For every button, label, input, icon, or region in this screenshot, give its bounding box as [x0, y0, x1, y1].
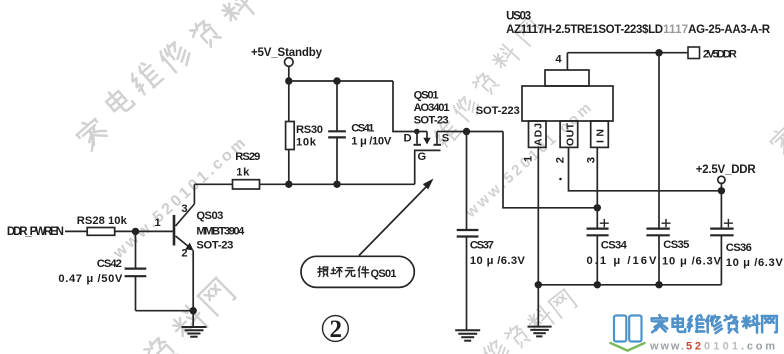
node junction CS34/rail [594, 281, 601, 288]
node junction B (CS41 top) [333, 77, 340, 84]
svg-text:OUT: OUT [565, 122, 577, 146]
svg-text:CS42: CS42 [97, 258, 122, 270]
capacitor CS34 [587, 208, 658, 285]
svg-text:CS41: CS41 [351, 123, 374, 135]
svg-text:ADJ: ADJ [533, 123, 545, 146]
node junction CS35/rail [655, 281, 662, 288]
svg-text:CS37: CS37 [470, 240, 494, 252]
transistor QS01 AO3401 [404, 90, 450, 185]
power symbol +5V_Standby [285, 58, 294, 67]
transistor QS03 MMBT3904 [155, 184, 246, 310]
wire CS42 bottom to emitter [136, 310, 194, 312]
svg-text:1117: 1117 [663, 24, 688, 36]
svg-text:QS01: QS01 [414, 90, 439, 102]
node junction CS42 top [132, 228, 139, 235]
svg-text:2: 2 [330, 316, 343, 343]
svg-text:www.: www. [649, 341, 686, 353]
svg-text:RS28 10k: RS28 10k [77, 215, 128, 227]
svg-text:RS29: RS29 [235, 151, 260, 163]
node DDR_PWREN label [7, 226, 64, 238]
wire +5V circle to junction [288, 66, 290, 81]
svg-text:AO3401: AO3401 [414, 102, 450, 114]
svg-text:1 μ /10V: 1 μ /10V [351, 135, 392, 147]
annotation arrow to QS01 [359, 179, 434, 256]
svg-text:QS01: QS01 [371, 268, 397, 280]
svg-text:US03: US03 [506, 11, 531, 23]
svg-text:4: 4 [555, 54, 562, 66]
capacitor CS41 [328, 81, 392, 184]
node junction 2V5DDR rail [655, 49, 662, 56]
logo text 家电维修资料网 [651, 315, 777, 333]
svg-text:0101: 0101 [704, 341, 740, 353]
svg-text:SOT-23: SOT-23 [414, 115, 449, 127]
wire QS01 source rail [437, 131, 503, 133]
svg-text:10 μ /6.3V: 10 μ /6.3V [662, 256, 722, 268]
svg-text:RS30: RS30 [296, 124, 323, 136]
wire +5V top rail [289, 80, 393, 82]
svg-text:+5V_Standby: +5V_Standby [251, 47, 323, 59]
svg-text:1k: 1k [236, 166, 250, 178]
node junction emitter/ground [190, 307, 197, 314]
svg-text:SOT-23: SOT-23 [196, 240, 233, 252]
logo book icon [611, 316, 645, 351]
svg-text:10 μ /6.3V: 10 μ /6.3V [726, 257, 784, 269]
wire +5V rail down to QS01 drain [393, 81, 415, 132]
wire +2.5V stub [720, 183, 722, 190]
svg-text:1: 1 [155, 217, 161, 229]
ground under CS37 [455, 330, 480, 340]
power symbol +2.5V_DDR [718, 176, 725, 183]
svg-text:10k: 10k [296, 136, 317, 148]
resistor RS29 [194, 151, 414, 189]
wire pin4 to 2V5DDR [567, 52, 688, 54]
logo url www.520101.com [649, 341, 777, 353]
svg-text:2V5DDR: 2V5DDR [703, 49, 737, 61]
ground under QS03 [182, 311, 207, 337]
node junction RS30/rail [285, 181, 292, 188]
node +2.5V_DDR label [696, 164, 757, 176]
svg-text:+2.5V_DDR: +2.5V_DDR [696, 164, 757, 176]
svg-text:2: 2 [181, 248, 187, 260]
ground under bottom rail [528, 285, 552, 337]
svg-text:10 μ /6.3V: 10 μ /6.3V [470, 255, 526, 267]
svg-text:AG-25-AA3-A-R: AG-25-AA3-A-R [688, 24, 771, 36]
node stray dot [559, 178, 562, 181]
svg-text:CS34: CS34 [601, 240, 628, 252]
capacitor CS37 [457, 132, 526, 330]
node junction CS37 top [463, 128, 470, 135]
wire DDR_PWREN to RS28 [65, 230, 87, 232]
node +5V_Standby label [251, 47, 323, 59]
capacitor CS35 [646, 219, 721, 285]
wire pin3 IN down [596, 147, 598, 207]
svg-text:DDR_PWREN: DDR_PWREN [7, 226, 64, 238]
svg-text:D: D [404, 133, 412, 145]
op-amp U1 US03 regulator labels [506, 11, 771, 37]
node junction rail/ground [535, 281, 542, 288]
node junction +2.5V/OUT rail [718, 187, 725, 194]
svg-text:CS35: CS35 [663, 239, 689, 251]
svg-text:IN: IN [595, 129, 607, 143]
svg-text:3: 3 [586, 157, 598, 163]
svg-text:AZ1117H-2.5TRE1SOT-223$LD: AZ1117H-2.5TRE1SOT-223$LD [506, 24, 663, 36]
svg-text:3: 3 [181, 203, 187, 215]
svg-text:SOT-223: SOT-223 [476, 105, 520, 117]
node 2V5DDR port [688, 47, 737, 61]
svg-text:0.47 μ /50V: 0.47 μ /50V [58, 273, 123, 285]
svg-text:0.1 μ /16V: 0.1 μ /16V [587, 255, 658, 267]
node junction IN/CS34 [594, 204, 601, 211]
IC US03 SOT-223 package [476, 53, 613, 164]
wire 2V5DDR down to CS35 [658, 53, 660, 230]
resistor RS28 [77, 215, 128, 235]
annotation callout box 损坏元件QS01 [301, 256, 414, 287]
wire pin1 ADJ down [537, 147, 539, 284]
svg-text:MMBT3904: MMBT3904 [196, 226, 245, 238]
annotation circled 2 [323, 316, 349, 343]
svg-text:CS36: CS36 [726, 242, 752, 254]
wire RS28 to QS03 base [115, 230, 173, 232]
svg-text:.com: .com [741, 341, 777, 353]
node junction A (+5V rail left) [285, 77, 292, 84]
svg-text:52: 52 [686, 341, 703, 353]
wire bottom ground rail [538, 284, 721, 286]
node junction CS41/rail [333, 181, 340, 188]
wire source to IN node [503, 132, 597, 208]
svg-text:G: G [418, 151, 427, 163]
svg-text:QS03: QS03 [196, 210, 223, 222]
svg-text:1: 1 [523, 156, 535, 162]
capacitor CS42 [58, 231, 146, 310]
resistor RS30 [286, 81, 323, 184]
svg-text:2: 2 [555, 157, 567, 163]
svg-text:S: S [442, 133, 450, 145]
capacitor CS36 [710, 191, 783, 285]
wire pin2 OUT down and right [569, 147, 722, 190]
